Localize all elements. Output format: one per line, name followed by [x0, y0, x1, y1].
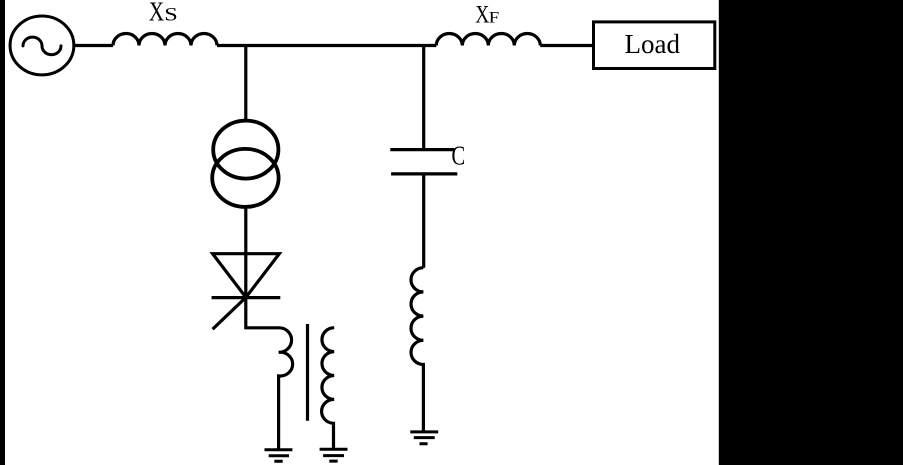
svg-text:C: C [452, 142, 466, 171]
svg-text:X: X [475, 0, 489, 28]
svg-text:S: S [164, 4, 178, 25]
svg-text:Load: Load [625, 29, 681, 59]
svg-text:X: X [149, 0, 165, 27]
svg-text:F: F [489, 8, 500, 26]
